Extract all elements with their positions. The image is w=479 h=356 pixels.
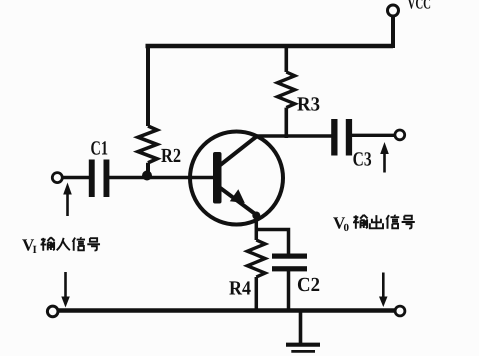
capacitor C3 [331, 119, 337, 156]
svg-text:VCC: VCC [408, 0, 432, 13]
arrow output up [383, 153, 386, 173]
wire C2 bottom lead [287, 271, 291, 312]
wire R2 bottom lead [146, 163, 150, 176]
svg-text:R4: R4 [229, 278, 251, 300]
terminal VCC [388, 5, 399, 16]
arrow right down [382, 273, 385, 298]
wire C3 to output [352, 134, 395, 137]
svg-text:C2: C2 [297, 274, 320, 296]
svg-text:C3: C3 [353, 149, 372, 171]
resistor R4 [247, 240, 265, 277]
arrow left down [64, 272, 67, 297]
terminal bottom right [395, 306, 405, 316]
wire R3 bottom lead [284, 108, 288, 138]
node emitter junction [252, 212, 260, 220]
terminal input [52, 173, 62, 183]
node base junction [142, 171, 152, 181]
capacitor C1 [89, 160, 95, 198]
transistor emitter arrow [230, 189, 245, 203]
transistor Q1 circle [190, 132, 283, 225]
char ru (入) [57, 238, 70, 250]
wire R2 top lead [146, 44, 150, 126]
svg-text:0: 0 [344, 222, 350, 234]
svg-text:C1: C1 [91, 138, 109, 160]
resistor R3 [277, 72, 294, 108]
wire R3 top lead [284, 44, 288, 72]
svg-text:R2: R2 [161, 145, 181, 167]
wire VCC drop [391, 16, 395, 48]
char hao (号) input [87, 238, 100, 250]
wire bottom rail [58, 308, 395, 313]
label Vo output signal [333, 214, 350, 235]
svg-text:R3: R3 [297, 94, 320, 116]
svg-text:I: I [33, 244, 37, 256]
terminal output [395, 130, 405, 140]
wire R4 bottom lead [255, 277, 259, 312]
wire C1 to base [109, 176, 214, 179]
wire emitter down [255, 214, 259, 240]
ground [286, 343, 320, 347]
char hao (号) output [402, 216, 415, 229]
ground lead [299, 312, 303, 344]
arrow input up [66, 193, 69, 216]
char xin (信) output [386, 215, 399, 229]
terminal bottom left [47, 306, 58, 317]
transistor base bar [213, 152, 222, 204]
resistor R2 [138, 126, 157, 163]
wire emitter branch to C2 [256, 230, 288, 255]
wire top rail VCC [146, 44, 394, 49]
wire input to C1 [63, 176, 90, 179]
char chu (出) [370, 215, 383, 228]
wire collector to C3 [255, 134, 332, 138]
transistor emitter lead [219, 187, 257, 215]
char shu (输) output [353, 215, 368, 229]
capacitor C2 [272, 254, 307, 259]
transistor collector lead [219, 137, 257, 167]
char shu (输) input [41, 237, 55, 250]
char xin (信) [73, 237, 85, 250]
label Vi input signal [22, 236, 37, 257]
